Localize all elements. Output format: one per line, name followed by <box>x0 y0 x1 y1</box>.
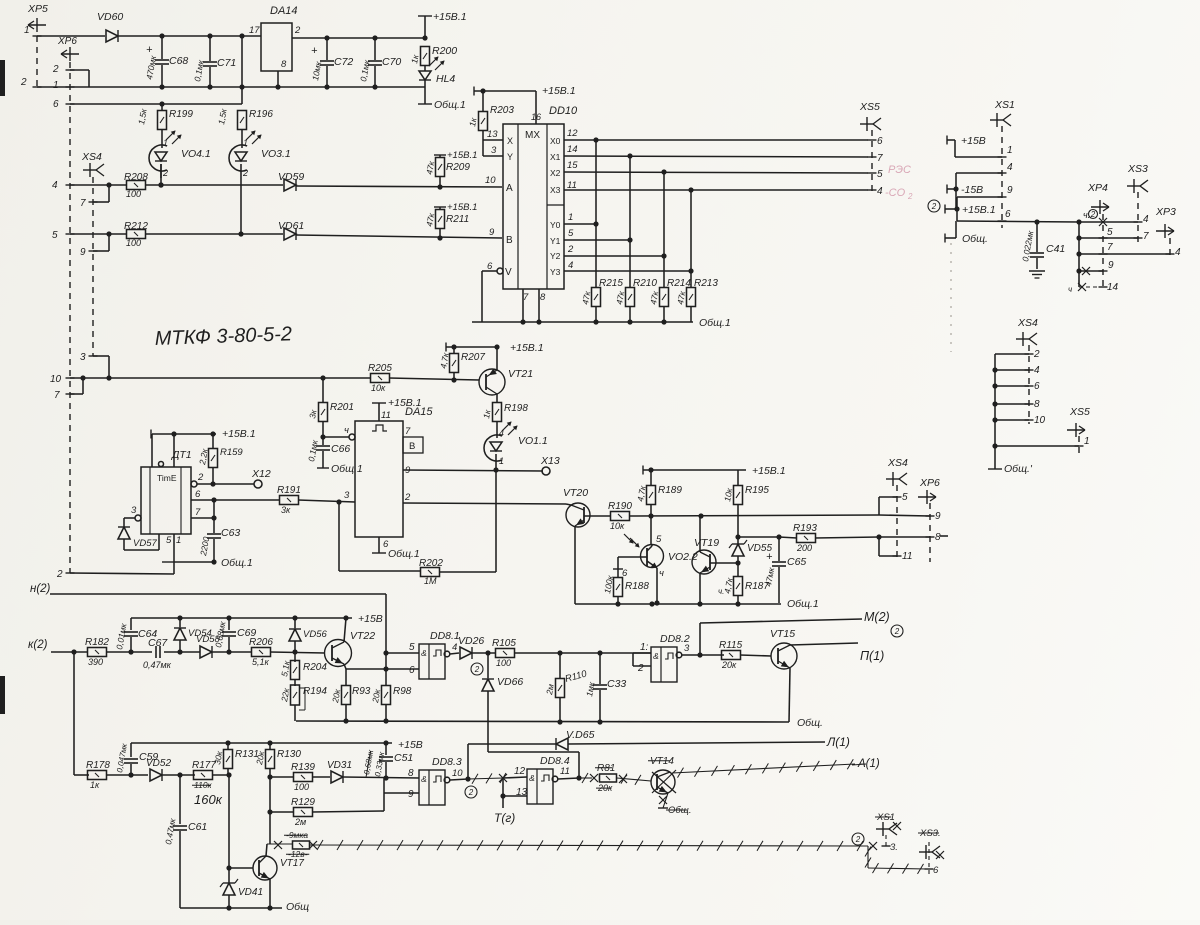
connector XP6 <box>918 477 940 504</box>
svg-text:1: 1 <box>53 80 59 91</box>
capacitor C64 <box>114 618 157 652</box>
svg-text:200: 200 <box>796 543 812 553</box>
power rail +15B.1 <box>151 428 256 440</box>
capacitor C69 <box>213 618 256 652</box>
pin XP4.7 <box>1079 242 1170 254</box>
svg-text:3к: 3к <box>307 408 319 419</box>
wire <box>124 534 159 550</box>
svg-text:XS5: XS5 <box>859 101 880 113</box>
svg-text:В: В <box>409 441 415 452</box>
svg-text:R199: R199 <box>169 109 193 120</box>
ground Общ. <box>945 233 988 245</box>
svg-text:R191: R191 <box>277 485 301 496</box>
svg-text:Общ.: Общ. <box>962 233 988 245</box>
deleted wire <box>865 846 927 874</box>
svg-text:22к: 22к <box>279 686 292 703</box>
resistor R205 <box>368 363 392 393</box>
svg-text:1: 1 <box>1084 436 1090 447</box>
svg-text:390: 390 <box>88 657 103 667</box>
pin XS4.5 <box>879 492 908 515</box>
svg-text:МТКФ 3-80-5-2: МТКФ 3-80-5-2 <box>154 323 292 350</box>
wire <box>700 516 701 552</box>
svg-text:XS4: XS4 <box>1017 317 1038 329</box>
svg-text:VT17: VT17 <box>280 858 304 869</box>
capacitor C61 <box>163 775 207 908</box>
svg-text:3: 3 <box>344 490 350 501</box>
resistor R129 <box>267 797 315 827</box>
scan edge mark <box>0 676 5 714</box>
svg-text:3: 3 <box>491 145 497 156</box>
svg-text:2м: 2м <box>294 817 306 827</box>
timer DT1 <box>141 434 192 546</box>
resistor R204 <box>279 652 327 686</box>
wire <box>574 526 576 604</box>
svg-text:R159: R159 <box>220 447 243 458</box>
wire <box>37 84 425 89</box>
svg-text:VD61: VD61 <box>278 220 304 232</box>
svg-text:R211: R211 <box>446 214 469 225</box>
resistor R188 <box>602 568 649 604</box>
svg-text:C72: C72 <box>334 56 353 68</box>
svg-text:-CO: -CO <box>885 187 906 199</box>
svg-text:7: 7 <box>1107 242 1113 253</box>
pin XS4.3 <box>80 352 109 378</box>
pin XP4.5 <box>1079 227 1138 238</box>
svg-text:7: 7 <box>405 426 411 437</box>
power +15B.1 <box>446 342 544 354</box>
pin 3 wire <box>339 502 421 571</box>
resistor R178 <box>74 760 110 790</box>
wire <box>514 650 651 655</box>
svg-text:7: 7 <box>523 292 529 303</box>
wire <box>929 503 931 562</box>
wire <box>296 235 502 241</box>
svg-text:VD57: VD57 <box>133 538 157 549</box>
svg-text:4: 4 <box>1007 162 1013 173</box>
svg-text:12: 12 <box>567 128 578 139</box>
wire <box>241 36 243 104</box>
wire <box>312 778 384 812</box>
pin XP6.7 <box>54 378 83 401</box>
wire pins 7 8 <box>523 289 539 322</box>
svg-text:5: 5 <box>568 228 574 239</box>
svg-text:н(2): н(2) <box>30 583 51 595</box>
deleted wire <box>617 774 651 785</box>
svg-text:R200: R200 <box>432 45 457 57</box>
capacitor C59 <box>115 742 158 775</box>
svg-text:+15В.1: +15В.1 <box>447 150 477 161</box>
svg-text:HL4: HL4 <box>436 73 455 85</box>
ground Общ. <box>988 463 1033 475</box>
svg-text:+: + <box>146 44 153 56</box>
svg-text:20к: 20к <box>330 687 343 704</box>
wire <box>383 594 388 669</box>
svg-text:XP5: XP5 <box>27 3 48 15</box>
svg-text:R194: R194 <box>303 686 327 697</box>
wire <box>699 573 701 604</box>
svg-text:4: 4 <box>1034 365 1040 376</box>
svg-text:C63: C63 <box>221 527 240 539</box>
resistor R115 <box>719 640 743 670</box>
svg-text:0,47мк: 0,47мк <box>143 660 172 670</box>
svg-text:2: 2 <box>474 665 480 674</box>
svg-text:C65: C65 <box>787 556 806 568</box>
svg-text:VT15: VT15 <box>770 628 795 640</box>
wire <box>124 518 135 527</box>
svg-text:14: 14 <box>567 144 578 155</box>
svg-text:1: 1 <box>176 535 181 546</box>
wire <box>238 164 243 237</box>
power rail +15B <box>131 613 383 625</box>
signal П(1) <box>790 643 884 663</box>
svg-text:B: B <box>506 235 513 246</box>
signal к(2) <box>28 639 88 655</box>
wire <box>164 651 200 653</box>
resistor R202 <box>419 558 496 586</box>
wire <box>92 177 94 356</box>
pin 2 wire <box>403 503 566 504</box>
svg-text:1М: 1М <box>424 576 437 586</box>
resistor R110 <box>544 653 589 722</box>
svg-text:DD8.3: DD8.3 <box>432 756 462 768</box>
svg-text:4: 4 <box>52 180 58 191</box>
pin 3 circle <box>131 505 141 521</box>
svg-text:Y2: Y2 <box>550 251 561 261</box>
svg-text:Y0: Y0 <box>550 220 561 230</box>
svg-text:+15В: +15В <box>398 739 423 751</box>
svg-text:МХ: МХ <box>525 130 540 141</box>
svg-text:2: 2 <box>242 168 248 178</box>
svg-text:R202: R202 <box>419 558 443 569</box>
svg-text:+15В.1: +15В.1 <box>542 85 576 97</box>
pin 9 wire X13 <box>403 467 543 472</box>
deleted connector XS3 <box>918 828 944 876</box>
pin XP6.10 <box>50 374 371 385</box>
wire <box>495 454 497 470</box>
svg-text:R209: R209 <box>446 162 470 173</box>
connector XP6 <box>52 36 79 110</box>
svg-text:9: 9 <box>1108 260 1114 271</box>
svg-text:4: 4 <box>1175 247 1181 258</box>
resistor R189 <box>635 470 682 516</box>
wire X1 <box>564 144 868 159</box>
svg-text:Y1: Y1 <box>550 236 561 246</box>
svg-text:DD10: DD10 <box>549 105 578 117</box>
svg-text:2: 2 <box>468 788 474 797</box>
wire Y3 <box>564 190 694 288</box>
svg-text:VD59: VD59 <box>278 171 304 183</box>
resistor R190 <box>608 501 632 531</box>
svg-text:&: & <box>421 648 427 658</box>
pin B box <box>403 437 423 453</box>
svg-text:47к: 47к <box>424 159 436 175</box>
diode VD65 line <box>468 729 825 750</box>
svg-text:C41: C41 <box>1046 243 1065 255</box>
svg-text:20к: 20к <box>254 749 267 766</box>
svg-text:9: 9 <box>408 789 414 800</box>
svg-text:3: 3 <box>131 505 137 516</box>
wire <box>495 470 497 572</box>
svg-text:2: 2 <box>894 627 900 636</box>
svg-text:11: 11 <box>381 410 391 421</box>
ground Общ.1 <box>317 463 363 475</box>
terminal X13 <box>540 455 560 475</box>
svg-text:4: 4 <box>499 428 504 438</box>
svg-text:5: 5 <box>1107 227 1113 238</box>
ground rail Общ.1 <box>472 317 731 329</box>
wire base <box>584 515 611 517</box>
svg-text:R210: R210 <box>633 278 657 289</box>
svg-text:A: A <box>506 183 513 194</box>
zener VD55 <box>729 537 772 577</box>
diode VD59 <box>278 171 304 191</box>
svg-text:9: 9 <box>489 227 495 238</box>
capacitor C33 <box>584 653 626 722</box>
transistor VT21 <box>479 368 533 395</box>
comparator DA15 <box>344 406 433 550</box>
svg-text:-15В: -15В <box>961 184 983 196</box>
LED HL4 <box>419 57 455 85</box>
svg-text:12: 12 <box>514 766 526 777</box>
svg-text:C66: C66 <box>331 443 350 455</box>
svg-text:2: 2 <box>637 663 644 674</box>
svg-text:VT19: VT19 <box>694 537 719 549</box>
wire <box>629 513 879 518</box>
wire <box>36 36 38 87</box>
wire <box>613 557 647 578</box>
svg-text:8: 8 <box>935 532 941 543</box>
diode VD58 <box>196 634 220 658</box>
svg-text:4: 4 <box>452 642 457 653</box>
pin XS1.4 <box>956 162 1013 189</box>
svg-text:13: 13 <box>487 129 498 140</box>
wire <box>322 378 324 403</box>
wire <box>344 664 419 672</box>
resistor R214 <box>648 278 691 322</box>
resistor R213 <box>675 278 718 322</box>
wire <box>37 35 105 37</box>
svg-text:&: & <box>653 651 659 661</box>
svg-text:R206: R206 <box>249 637 273 648</box>
svg-text:1: 1 <box>568 212 573 223</box>
wire <box>500 778 527 808</box>
wire X0 <box>564 128 868 143</box>
svg-text:9: 9 <box>1007 185 1013 196</box>
svg-text:R130: R130 <box>277 749 301 760</box>
diode VD57 <box>118 527 157 549</box>
resistor R105 <box>492 638 516 668</box>
wire <box>269 879 271 908</box>
gate DD8.1 <box>409 630 460 679</box>
wire <box>740 655 771 656</box>
wire <box>1028 345 1030 424</box>
revision mark <box>928 200 940 212</box>
svg-text:+: + <box>311 45 318 57</box>
pin XS4.6 <box>992 381 1040 392</box>
power rail +15B.1 <box>474 85 576 97</box>
svg-text:47к: 47к <box>614 289 626 305</box>
svg-text:Общ.1: Общ.1 <box>699 317 731 329</box>
svg-text:DA14: DA14 <box>270 5 298 17</box>
signal н(2) <box>30 583 386 595</box>
svg-text:ч.: ч. <box>718 587 724 596</box>
svg-text:X2: X2 <box>550 168 561 178</box>
svg-text:1к: 1к <box>467 116 479 127</box>
transistor VT17 <box>253 856 304 880</box>
deleted resistor <box>267 830 317 859</box>
annotation <box>1083 210 1098 221</box>
svg-text:2: 2 <box>567 244 574 255</box>
svg-text:0,1мк: 0,1мк <box>358 58 372 82</box>
pin XS3.7 <box>1134 231 1150 242</box>
svg-text:2: 2 <box>907 192 913 201</box>
svg-text:100: 100 <box>126 189 141 199</box>
svg-text:2: 2 <box>162 168 168 178</box>
svg-text:7: 7 <box>195 507 201 518</box>
svg-text:7: 7 <box>54 390 60 401</box>
wire <box>384 792 419 794</box>
pin XS5.4 <box>868 186 884 197</box>
deleted wire <box>658 793 691 816</box>
wire <box>450 653 459 654</box>
capacitor C72 <box>310 38 353 87</box>
wire <box>682 652 724 657</box>
optocoupler VO2.2 phototransistor <box>624 534 698 603</box>
deleted wire <box>468 773 507 784</box>
ground rail Общ. <box>296 717 823 729</box>
optocoupler VO4.1 LED <box>149 131 211 178</box>
connector XP5 <box>20 3 48 88</box>
diode VD61 <box>278 220 304 240</box>
resistor R199 <box>136 104 193 148</box>
svg-text:R189: R189 <box>658 485 682 496</box>
svg-text:3: 3 <box>684 643 690 654</box>
deleted wire <box>672 758 880 778</box>
svg-text:VT22: VT22 <box>350 630 375 642</box>
svg-text:3.: 3. <box>890 842 898 853</box>
resistor R131 <box>212 743 259 775</box>
svg-text:5,1к: 5,1к <box>252 657 270 667</box>
transistor VT20 <box>563 487 590 527</box>
connector XS4 <box>81 151 104 177</box>
deleted wire <box>310 840 868 851</box>
resistor R159 <box>197 434 243 487</box>
svg-text:6: 6 <box>53 99 59 110</box>
pin 7 wire <box>191 500 217 533</box>
wire bus <box>992 354 997 469</box>
svg-text:10к: 10к <box>610 521 625 531</box>
svg-text:XP4: XP4 <box>1087 182 1108 194</box>
svg-text:8: 8 <box>281 59 287 70</box>
svg-text:R98: R98 <box>393 686 412 697</box>
diode VD60 <box>97 11 123 42</box>
wire <box>1102 214 1104 290</box>
svg-text:100: 100 <box>126 238 141 248</box>
wire <box>106 772 148 777</box>
svg-text:1: 1 <box>243 138 248 148</box>
optocoupler VO1.1 LED <box>484 422 548 466</box>
svg-text:R212: R212 <box>124 221 148 232</box>
svg-text:R204: R204 <box>303 662 327 673</box>
svg-text:1,5к: 1,5к <box>216 107 229 125</box>
svg-text:C67: C67 <box>148 637 168 649</box>
svg-text:10: 10 <box>1034 415 1046 426</box>
connector XS5 <box>859 101 881 131</box>
svg-text:R178: R178 <box>86 760 110 771</box>
wire <box>496 394 498 403</box>
svg-text:30к: 30к <box>212 749 224 765</box>
wire bus <box>1076 222 1081 287</box>
resistor R208 <box>124 172 148 199</box>
svg-text:XS3: XS3 <box>1127 163 1148 175</box>
svg-text:+15В.1: +15В.1 <box>962 204 996 216</box>
pin XS5.7 <box>868 153 884 164</box>
svg-text:VT14: VT14 <box>650 756 674 767</box>
wire <box>1169 238 1171 258</box>
diode VD31 <box>327 760 352 783</box>
svg-text:R139: R139 <box>291 762 315 773</box>
gate DD8.2 <box>637 633 690 682</box>
svg-text:2м: 2м <box>544 683 556 696</box>
wire <box>558 775 582 780</box>
svg-text:TimE: TimE <box>157 473 177 483</box>
pin 16 wire <box>535 91 537 124</box>
svg-text:Общ.: Общ. <box>668 805 691 816</box>
svg-text:R105: R105 <box>492 638 516 649</box>
wire <box>424 80 426 104</box>
svg-text:Общ.1: Общ.1 <box>221 557 253 569</box>
svg-text:R190: R190 <box>608 501 632 512</box>
svg-text:1: 1 <box>163 138 168 148</box>
svg-text:Общ.1: Общ.1 <box>434 99 466 111</box>
wire <box>503 777 527 778</box>
wire <box>266 841 282 856</box>
wire <box>496 347 498 370</box>
capacitor C41 <box>1020 222 1065 269</box>
svg-text:VO3.1: VO3.1 <box>261 148 291 160</box>
wire <box>789 668 790 722</box>
resistor R182 <box>85 637 109 667</box>
svg-text:XS4: XS4 <box>81 151 102 163</box>
power +15B.1 <box>418 11 467 38</box>
svg-text:Общ.1: Общ.1 <box>388 548 420 560</box>
wire <box>70 70 89 87</box>
revision mark <box>891 625 903 637</box>
svg-text:VD31: VD31 <box>327 760 352 771</box>
pin 6 ground <box>372 537 420 560</box>
svg-text:7: 7 <box>877 153 883 164</box>
svg-text:5: 5 <box>877 169 883 180</box>
svg-text:5: 5 <box>656 534 662 545</box>
svg-text:+15В: +15В <box>961 135 986 147</box>
connector XS5 <box>1067 406 1090 437</box>
wire <box>957 219 1082 224</box>
svg-text:C68: C68 <box>169 55 188 67</box>
wire <box>815 534 882 539</box>
svg-text:R208: R208 <box>124 172 148 183</box>
capacitor C70 <box>358 38 401 87</box>
svg-text:2: 2 <box>56 569 63 580</box>
resistor R195 <box>722 470 769 540</box>
wire <box>472 650 496 655</box>
svg-text:160к: 160к <box>194 792 223 807</box>
svg-text:2: 2 <box>931 202 937 211</box>
wire <box>650 516 652 544</box>
capacitor C65 <box>763 537 806 603</box>
wire X3 <box>564 180 868 193</box>
svg-text:100: 100 <box>294 782 309 792</box>
wire <box>52 180 127 191</box>
